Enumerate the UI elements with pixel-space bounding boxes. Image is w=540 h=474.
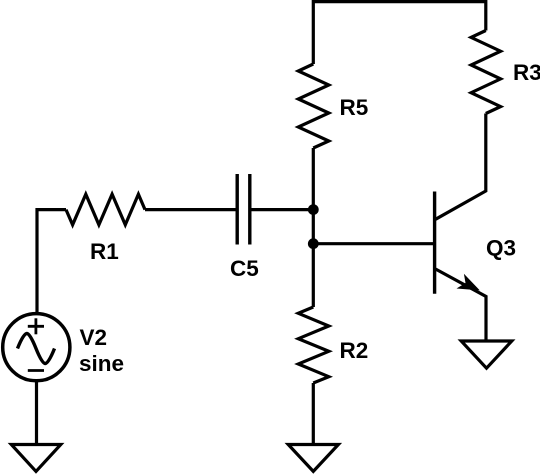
wire R1 to C5 bbox=[145, 208, 237, 211]
wire top bus from R5 top to R3 top bbox=[313, 2, 486, 64]
wire R5 bottom through node to R2 top bbox=[312, 148, 315, 307]
svg-text:R1: R1 bbox=[90, 239, 119, 264]
resistor R1 bbox=[66, 194, 145, 225]
emitter arrow bbox=[457, 274, 480, 291]
wire node B to base bbox=[313, 242, 434, 245]
resistor R3 bbox=[471, 31, 501, 114]
emitter lead bbox=[436, 269, 487, 341]
voltage source V2 bbox=[3, 314, 70, 381]
ground (left) bbox=[11, 445, 61, 472]
svg-text:C5: C5 bbox=[230, 256, 259, 281]
base bar bbox=[433, 192, 436, 294]
capacitor C5 bbox=[237, 174, 250, 245]
svg-text:Q3: Q3 bbox=[486, 236, 516, 261]
ground (right) bbox=[461, 341, 512, 368]
wire source top corner to R1 bbox=[37, 210, 66, 314]
wire V2 bottom to ground bbox=[35, 380, 38, 445]
minus sign bbox=[28, 369, 44, 372]
sine wave symbol bbox=[18, 334, 55, 364]
node A junction dot (C5 / R5) bbox=[308, 204, 319, 215]
svg-text:R3: R3 bbox=[513, 60, 540, 85]
transistor Q3 bbox=[435, 114, 486, 342]
node B junction dot (base / R2) bbox=[308, 238, 319, 249]
wire C5 to node A bbox=[250, 208, 313, 211]
wire R2 bottom to ground bbox=[312, 383, 315, 445]
svg-text:sine: sine bbox=[79, 351, 124, 376]
svg-text:V2: V2 bbox=[80, 325, 108, 350]
svg-text:R2: R2 bbox=[340, 338, 369, 363]
plus sign bbox=[28, 318, 44, 334]
collector lead bbox=[436, 114, 486, 220]
resistor R2 bbox=[298, 307, 329, 383]
resistor R5 bbox=[298, 64, 329, 148]
svg-text:R5: R5 bbox=[340, 95, 369, 120]
ground (middle) bbox=[288, 445, 338, 472]
